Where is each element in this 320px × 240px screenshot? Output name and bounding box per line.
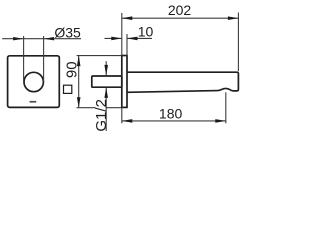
dimension 202: left arrowhead [122, 16, 133, 20]
dimension 180: right extension line [225, 92, 227, 123]
dimension G1/2: white mask behind label [95, 100, 105, 132]
dimension square90: dimension line [78, 56, 80, 108]
dimension 180: right arrowhead [215, 119, 226, 123]
dimension Ø35: left extension line [23, 36, 25, 82]
dimension G1/2: lower arrowhead pointing up [104, 87, 108, 98]
dimension 180: left extension line [121, 107, 123, 123]
svg-text:10: 10 [138, 24, 154, 40]
dimension 10: right arrowhead [127, 37, 138, 41]
dimension 10: right extension line [126, 34, 128, 56]
dimension 10: left arrowhead [111, 37, 122, 41]
svg-text:G1/2: G1/2 [93, 99, 110, 132]
side view: spout tube outline with aerator hump [127, 72, 238, 92]
dimension square90: bottom extension line [77, 107, 122, 109]
svg-text:90: 90 [63, 61, 80, 78]
dimension square90: top extension line [77, 55, 122, 57]
dimension Ø35: dimension line with outside tails [2, 38, 43, 40]
dimension 202: right extension line [237, 13, 239, 72]
dimension 10: left tail and dimension line [105, 37, 122, 39]
svg-text:202: 202 [168, 2, 192, 18]
svg-text:180: 180 [159, 106, 183, 122]
front view: KEUCO logo mark on plate [30, 101, 37, 103]
dimension Ø35: left arrowhead [13, 37, 24, 40]
dimension 180: dimension line [122, 120, 226, 122]
dimension G1/2: upper arrowhead pointing down [104, 65, 108, 76]
dimension Ø35: right extension line [43, 36, 45, 82]
dimension square90: square symbol of label [64, 85, 72, 93]
front view: spout circle Ø35 [24, 72, 43, 91]
dimension square90: bottom arrowhead [77, 97, 81, 108]
dimension G1/2: leader line through stub [105, 61, 107, 75]
front view: square wall plate [8, 56, 60, 108]
svg-text:Ø35: Ø35 [54, 24, 81, 40]
dimension 180: left arrowhead [122, 119, 133, 123]
side view: wall plate [122, 56, 127, 108]
dimension 202: left extension line [121, 13, 123, 56]
side view: G1/2 threaded stub [92, 76, 122, 87]
dimension square90: top arrowhead [77, 56, 81, 67]
dimension 202: dimension line [122, 17, 239, 19]
dimension 202: right arrowhead [228, 16, 239, 20]
dimension Ø35: right arrowhead [44, 37, 55, 40]
